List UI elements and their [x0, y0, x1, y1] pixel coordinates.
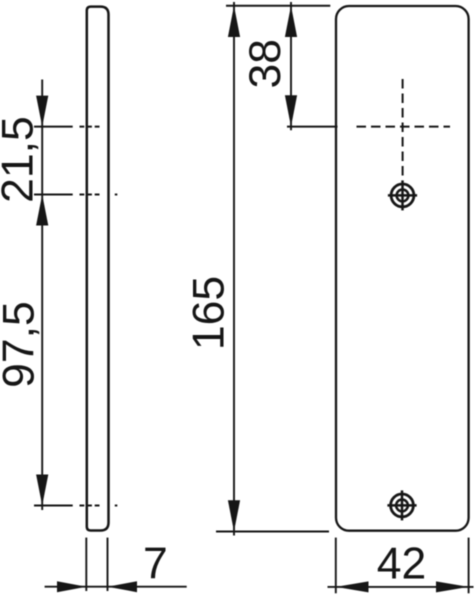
svg-text:21,5: 21,5	[0, 116, 43, 203]
svg-text:42: 42	[377, 540, 427, 589]
svg-text:7: 7	[143, 540, 168, 589]
svg-text:97,5: 97,5	[0, 301, 44, 388]
svg-text:165: 165	[185, 276, 234, 350]
svg-text:38: 38	[241, 39, 290, 88]
